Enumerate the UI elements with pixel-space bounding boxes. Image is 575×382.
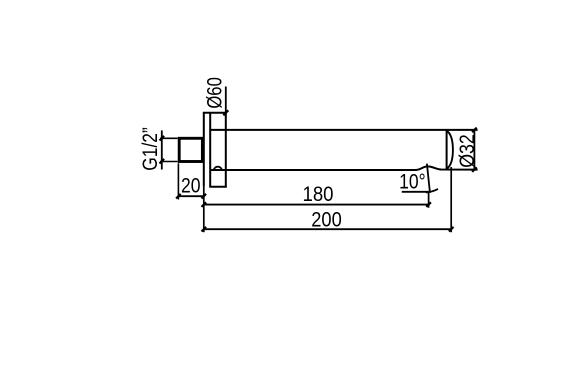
- tube end cap arc: [447, 131, 453, 169]
- angle 10°: slanted reference line from outlet crest: [427, 164, 430, 193]
- spout tube bottom edge with 10° outlet bump, then Ø32 bottom extension: [210, 166, 477, 170]
- dimension 180: dimension line: [204, 204, 429, 206]
- wall flange plate (Ø60 escutcheon) outline: [203, 113, 227, 187]
- tube end cap chord: [446, 130, 448, 170]
- dimension 180: tick left: [202, 202, 207, 207]
- angle 10°: horizontal reference leg: [402, 191, 431, 193]
- dimension Ø32: tick top: [472, 128, 477, 133]
- dimension 20: tick left: [176, 194, 181, 199]
- flange inner face line: [209, 113, 211, 187]
- threaded inlet fitting G1/2 (thick outline): [179, 138, 202, 161]
- dimension 180: right extension line: [428, 192, 430, 208]
- svg-text:180: 180: [303, 183, 334, 206]
- dimension G1/2": dimension line: [161, 130, 163, 169]
- dimension 20: dimension line: [178, 195, 203, 197]
- common left extension line below flange (wall plane): [203, 187, 205, 233]
- dimension 180: tick right: [426, 202, 431, 207]
- dimension 200: tick right: [449, 227, 454, 232]
- dimension 20: left extension line: [177, 163, 179, 199]
- svg-text:G1/2”: G1/2”: [139, 127, 162, 171]
- dimension 20: tick right: [202, 194, 207, 199]
- dimension Ø32: tick bottom: [472, 167, 477, 172]
- dimension G1/2": tick bottom: [160, 159, 165, 164]
- angle 10°: dimension arc: [426, 189, 438, 193]
- dimension 200: dimension line: [204, 228, 451, 230]
- svg-text:Ø32: Ø32: [456, 134, 479, 168]
- dimension 200: tick left: [202, 227, 207, 232]
- dimension Ø32: dimension line: [473, 130, 475, 170]
- dimension G1/2": extension line bottom: [160, 161, 178, 163]
- dimension G1/2": extension line top: [160, 137, 178, 139]
- svg-text:20: 20: [181, 175, 201, 198]
- svg-text:Ø60: Ø60: [204, 77, 227, 109]
- spout tube top edge (also Ø32 top extension): [210, 129, 477, 131]
- dimension Ø60: tick: [223, 110, 228, 115]
- svg-text:200: 200: [311, 208, 342, 231]
- dimension 200: right extension line: [450, 167, 452, 232]
- svg-text:10°: 10°: [399, 171, 426, 194]
- dimension Ø60: extension of flange edge upward: [225, 87, 227, 113]
- dimension G1/2": tick top: [160, 136, 165, 141]
- set screw on tube underside: [214, 167, 222, 170]
